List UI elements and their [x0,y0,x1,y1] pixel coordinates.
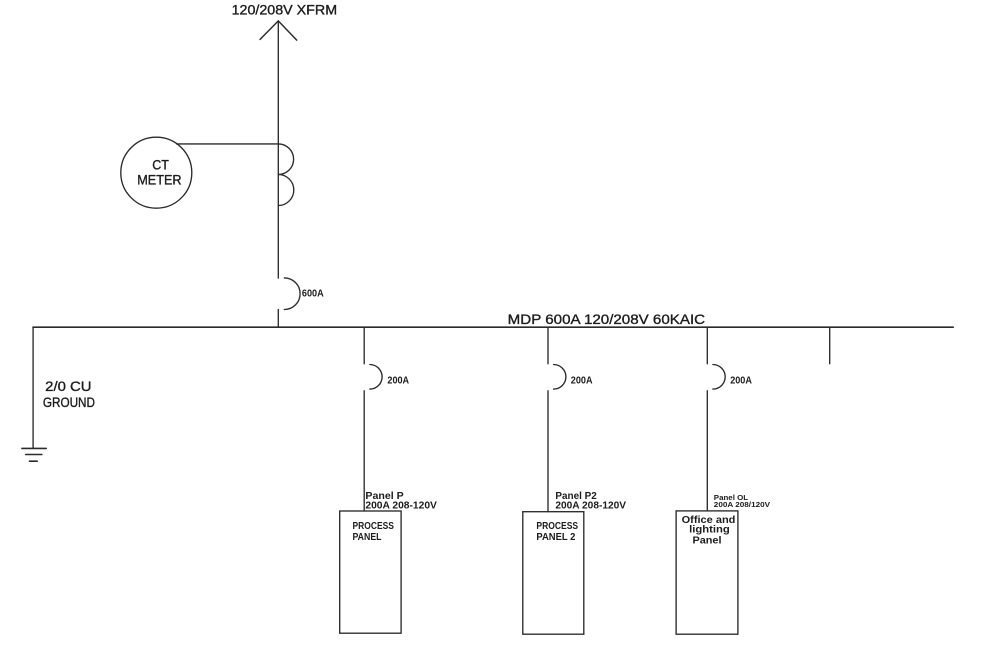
svg-text:Panel OL: Panel OL [714,495,749,502]
CT coil arc 1 [278,144,293,175]
svg-text:Panel: Panel [693,535,722,546]
svg-text:600A: 600A [302,288,324,299]
svg-text:PANEL 2: PANEL 2 [536,532,575,543]
wire: feeder 1 to Panel P [363,391,365,511]
bus MDP 600A [33,326,953,328]
svg-text:2/0 CU: 2/0 CU [45,378,91,394]
svg-text:METER: METER [137,172,181,188]
wire: feeder 3 bus tap [706,327,708,364]
svg-text:200A 208-120V: 200A 208-120V [555,501,626,512]
CT meter M1 [121,137,192,208]
svg-text:PROCESS: PROCESS [353,521,394,532]
panel P enclosure [340,511,401,633]
breaker 200A (feeder 2) [554,365,566,390]
label: PROCESS PANEL 2 [536,521,578,543]
breaker 200A (feeder 1) [370,365,382,390]
svg-text:200A: 200A [571,375,593,386]
label: 200A (feeder 1) [387,375,409,386]
svg-text:PANEL: PANEL [353,532,383,543]
label: Office and lighting Panel [682,515,736,546]
ground symbol [22,448,46,461]
label: PROCESS PANEL [353,521,394,543]
wire: CT meter tap [177,143,279,145]
wire: spare stub [829,327,831,364]
breaker 200A (feeder 3) [713,365,725,390]
svg-text:200A 208-120V: 200A 208-120V [365,501,437,512]
wire: feeder 3 to Panel OL [706,391,708,511]
svg-text:200A 208/120V: 200A 208/120V [714,502,771,509]
svg-text:200A: 200A [730,375,752,386]
wire: feeder 2 bus tap [547,327,549,364]
label: 600A [302,288,324,299]
panel OL enclosure [676,511,738,634]
label: CT METER [137,157,181,188]
svg-text:200A: 200A [387,375,409,386]
label: MDP 600A 120/208V 60KAIC [508,311,705,327]
CT coil arc 2 [278,175,294,206]
label: 120/208V XFRM (utility transformer) [232,2,338,18]
utility feed arrow (to transformer) [260,21,297,40]
wire: main service conductor [277,21,279,278]
label: Panel P 200A 208-120V [365,491,437,511]
svg-text:GROUND: GROUND [43,394,95,410]
label: 200A (feeder 2) [571,375,593,386]
wire: feeder 1 bus tap [363,327,365,364]
breaker 600A (main) [284,278,300,310]
wire: main breaker to bus [277,310,279,328]
label: 200A (feeder 3) [730,375,752,386]
label: Panel OL 200A 208/120V [714,495,771,509]
panel P2 enclosure [523,512,584,635]
svg-text:CT: CT [152,157,169,173]
label: 2/0 CU GROUND [43,378,95,410]
svg-text:120/208V XFRM: 120/208V XFRM [232,2,338,18]
svg-text:MDP 600A 120/208V 60KAIC: MDP 600A 120/208V 60KAIC [508,311,705,327]
svg-text:PROCESS: PROCESS [536,521,578,532]
wire: ground conductor 2/0 CU [32,327,34,448]
svg-text:lighting: lighting [689,525,730,536]
wire: feeder 2 to Panel P2 [547,391,549,512]
label: Panel P2 200A 208-120V [555,491,626,511]
